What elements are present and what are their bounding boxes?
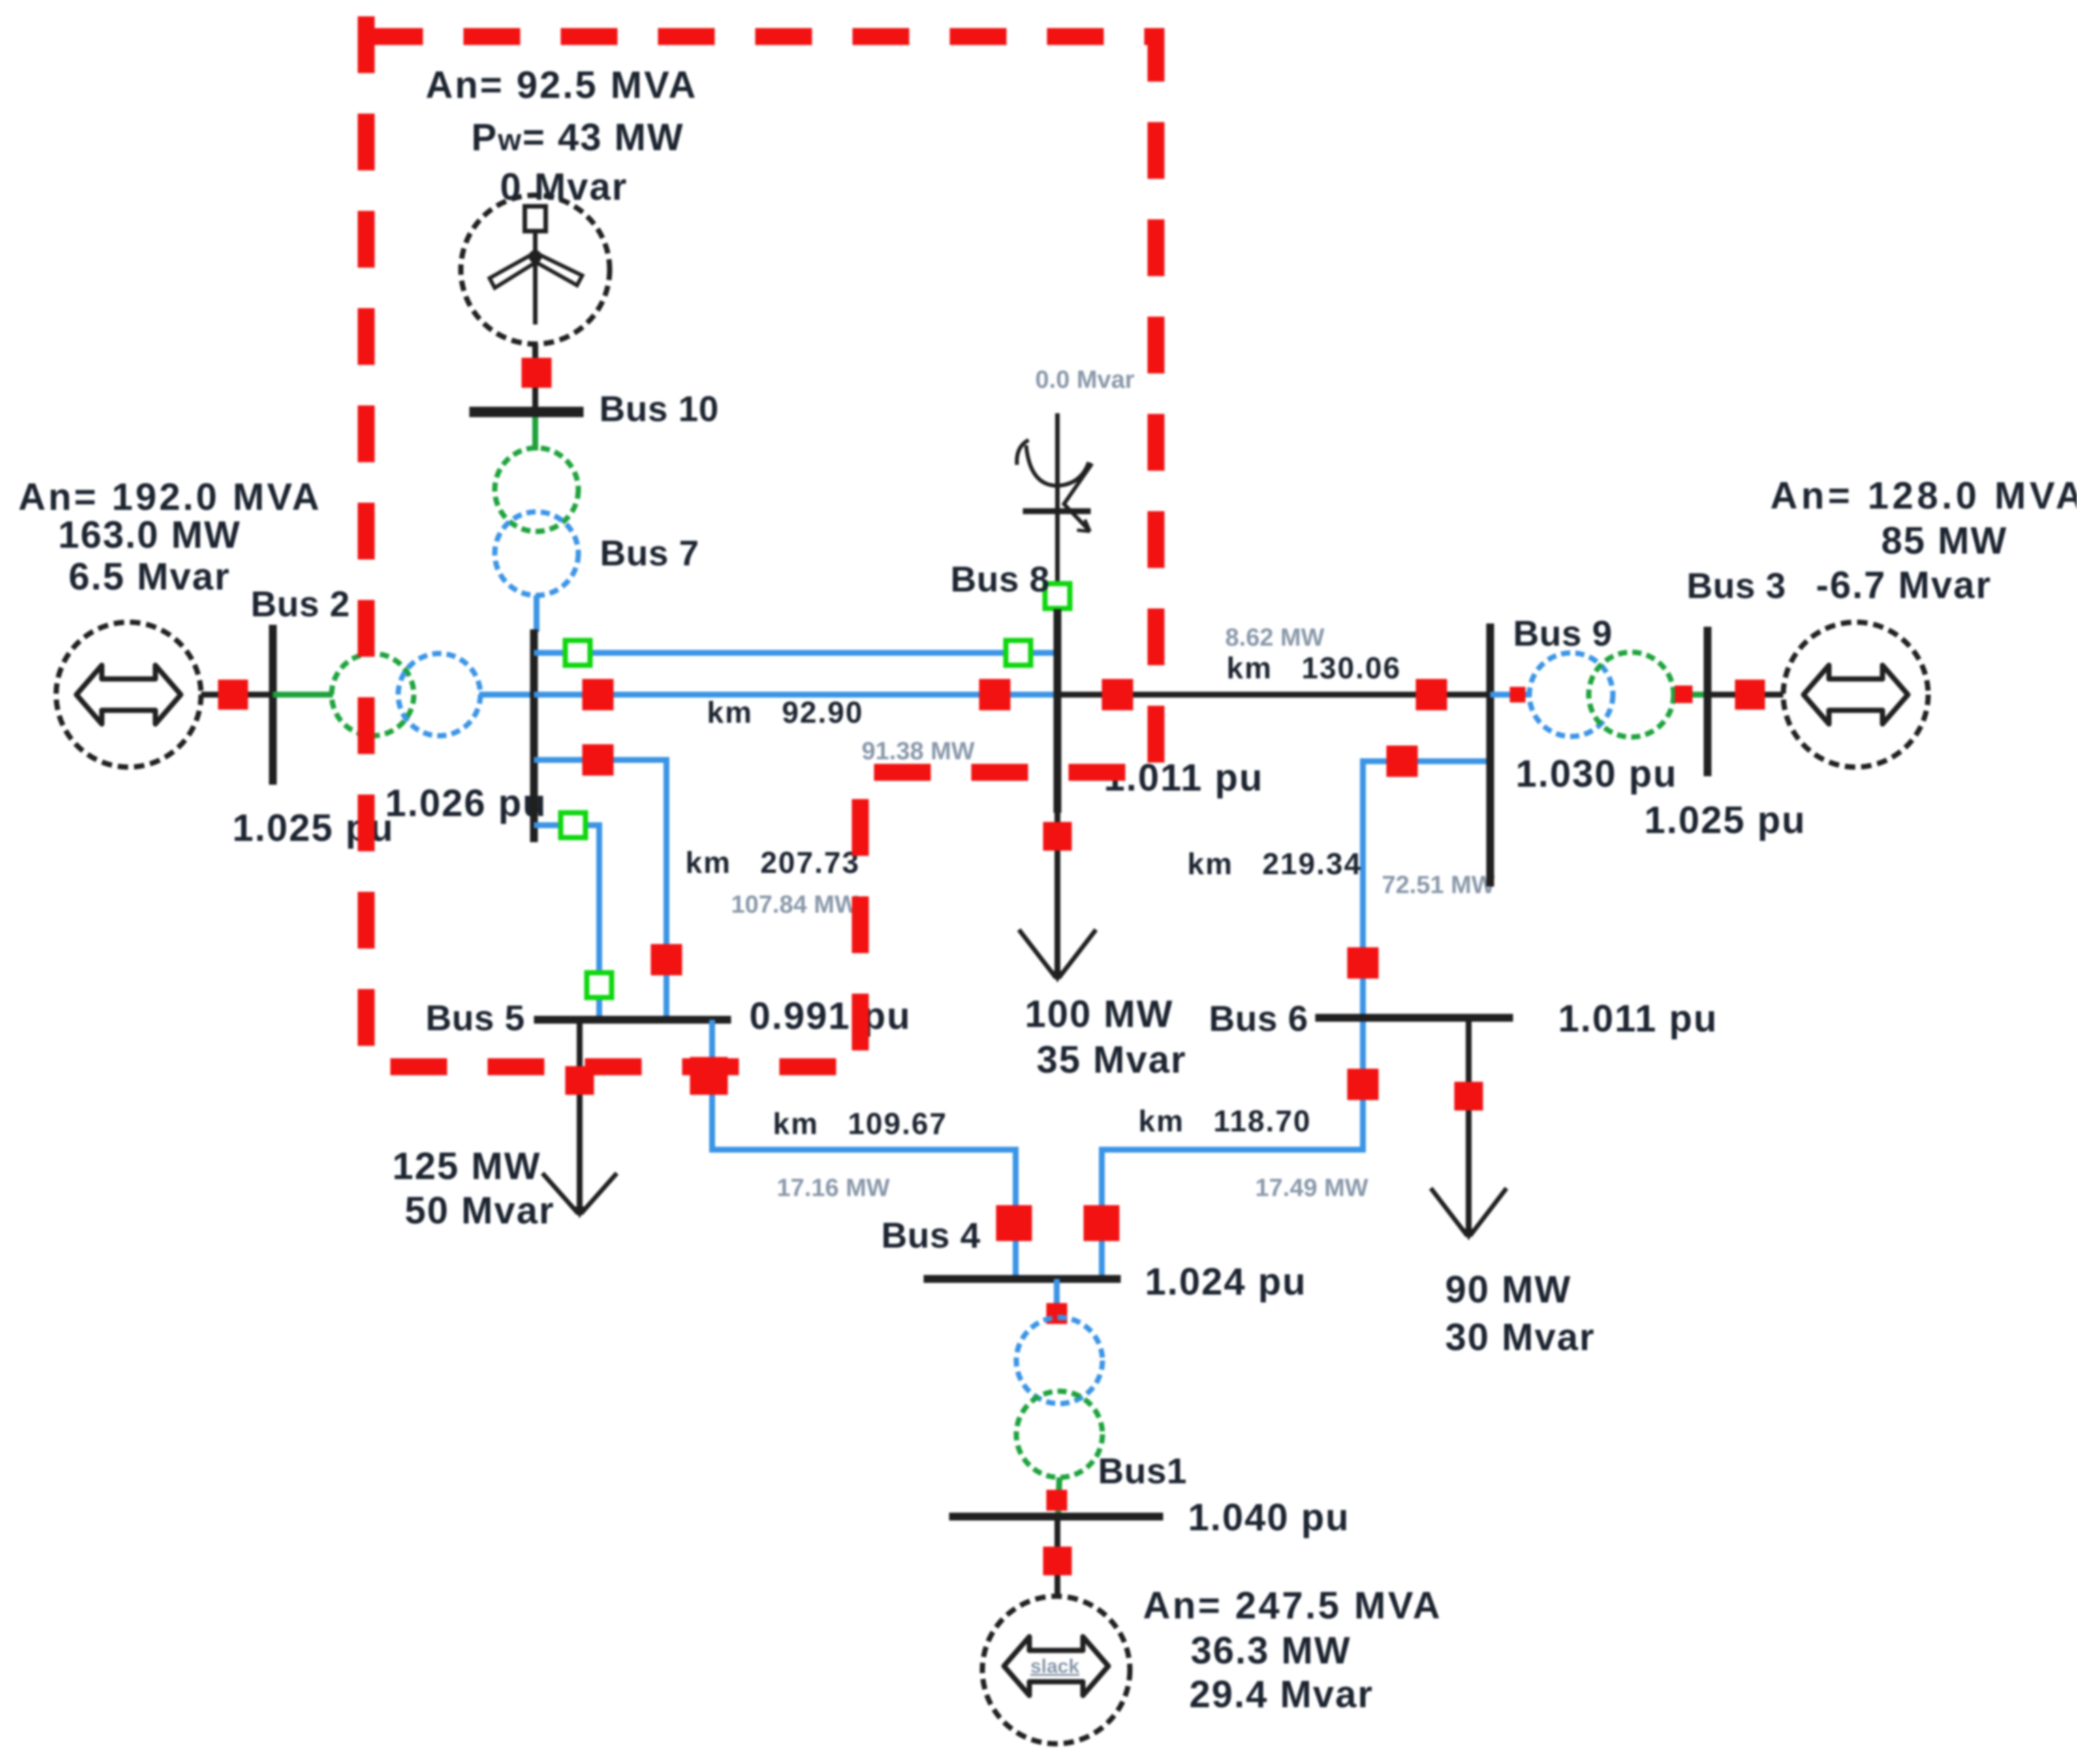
svg-text:6.5 Mvar: 6.5 Mvar [69,556,230,598]
switch line7-5 at Bus7 (open) [561,813,586,838]
svg-text:1.040 pu: 1.040 pu [1188,1496,1350,1539]
wire Bus 4 to T3 [1054,1279,1060,1320]
switch line7-8 at Bus7 (open) [565,640,590,665]
wire line 7-5 lower (open) [534,825,599,1020]
breaker line7-5 at Bus5 (closed) [651,944,682,975]
breaker line6-9 at Bus6 (closed) [1347,947,1379,979]
svg-text:Bus 6: Bus 6 [1209,998,1308,1039]
svg-text:1.030 pu: 1.030 pu [1516,753,1678,795]
breaker line7-8 at Bus8 (closed) [979,679,1010,710]
boundary: electrical island (red dashed outline) [366,16,1156,1067]
breaker load L6 (closed) [1454,1082,1483,1110]
svg-text:Bus 2: Bus 2 [251,584,350,624]
svg-text:0.991 pu: 0.991 pu [749,995,911,1037]
svg-text:-6.7 Mvar: -6.7 Mvar [1816,564,1991,606]
breaker T4 at Bus3 (closed) [1675,685,1693,703]
breaker G3-Bus3 (closed) [1735,680,1765,710]
svg-text:1.026 pu: 1.026 pu [385,782,547,825]
bus 9 bar [1486,623,1494,887]
bus 2 bar [269,625,277,785]
breaker line4-6 at Bus6 (closed) [1347,1069,1379,1100]
breaker line4-6 at Bus4 (closed) [1084,1205,1119,1241]
transformer T4 (Bus9-Bus3) [1529,652,1674,737]
svg-text:1.011 pu: 1.011 pu [1104,757,1264,799]
wire T4 to Bus 3 [1672,692,1708,698]
wire line 7-5 (km 207.73) [534,760,666,1020]
svg-text:163.0 MW: 163.0 MW [58,514,241,556]
svg-text:125 MW: 125 MW [392,1145,541,1188]
svg-text:km 118.70: km 118.70 [1138,1104,1311,1138]
breaker line6-9 at Bus9 (closed) [1386,746,1418,777]
svg-text:km 219.34: km 219.34 [1187,847,1362,881]
bus 4 bar [924,1275,1121,1283]
wire line 6-9 (km 219.34) [1363,761,1490,1018]
breaker load L8 (closed) [1043,822,1072,851]
svg-text:Bus 9: Bus 9 [1513,613,1612,654]
svg-text:Bus1: Bus1 [1098,1451,1187,1491]
breaker W1-Bus10 (closed) [522,358,552,388]
svg-text:km 130.06: km 130.06 [1226,651,1401,685]
svg-text:slack: slack [1030,1656,1079,1677]
load L8 feeder wire [1055,813,1061,975]
breaker line7-5 at Bus7 (closed) [582,744,614,776]
svg-text:100 MW: 100 MW [1025,993,1174,1035]
breaker line7-8 at Bus7 (closed) [582,679,614,710]
svg-text:km 109.67: km 109.67 [773,1107,948,1141]
svg-text:Bus 5: Bus 5 [426,998,525,1038]
breaker line8-9 at Bus9 (closed) [1416,679,1447,710]
switched shunt SH1 (Bus 8) [1017,413,1092,583]
switch shunt SH1 (open) [1045,584,1070,608]
svg-text:36.3 MW: 36.3 MW [1191,1630,1351,1672]
svg-text:17.16 MW: 17.16 MW [777,1174,890,1202]
wire Bus 10 to T1 [533,417,539,450]
svg-text:29.4 Mvar: 29.4 Mvar [1189,1673,1373,1716]
breaker T4 at Bus9 (closed) [1510,687,1525,702]
breaker G2-Bus2 (closed) [218,680,248,710]
wire Bus 1 to slack generator [1055,1517,1061,1598]
wire T2 to Bus 7 [479,692,534,698]
breaker G1-Bus1 (closed) [1043,1547,1072,1575]
svg-text:85 MW: 85 MW [1881,520,2008,562]
svg-text:An= 92.5 MVA: An= 92.5 MVA [426,64,698,106]
load L5 arrow [542,1173,617,1218]
wire T3 to Bus 1 [1058,1477,1059,1517]
transformer T2 (Bus2-Bus7) [332,654,480,736]
switch line7-8 at Bus8 (open) [1006,640,1031,665]
svg-text:Bus 10: Bus 10 [599,388,719,429]
svg-text:km 92.90: km 92.90 [707,695,864,729]
bus 6 bar [1315,1014,1513,1022]
svg-text:107.84 MW: 107.84 MW [731,891,858,919]
svg-text:91.38 MW: 91.38 MW [862,738,975,765]
wire T1 to Bus 7 [534,595,540,632]
generator G1 (slack machine) [982,1596,1130,1744]
generator G2 (Bus 2 machine) [56,622,201,767]
load L5 feeder wire [577,1020,583,1209]
svg-text:90 MW: 90 MW [1445,1268,1572,1311]
svg-text:50 Mvar: 50 Mvar [405,1189,555,1232]
wire W1 to breaker [533,344,539,412]
load L8 arrow [1019,930,1096,983]
wind generator W1 [461,195,610,344]
svg-text:Bus 8: Bus 8 [950,559,1050,599]
bus 8 bar [1054,609,1061,813]
switch line7-5 at Bus5 (open) [587,973,612,998]
wire Bus 2 to T2 [273,692,333,698]
svg-text:Bus 7: Bus 7 [600,533,699,573]
transformer T3 (Bus4-Bus1) [1016,1317,1102,1477]
svg-text:Pw= 43 MW: Pw= 43 MW [471,116,684,159]
svg-text:35 Mvar: 35 Mvar [1037,1039,1187,1081]
svg-text:1.011 pu: 1.011 pu [1558,998,1718,1040]
svg-text:1.025 pu: 1.025 pu [1644,799,1806,842]
generator G3 (Bus 3 machine) [1783,622,1928,767]
breaker load L5 (closed) [565,1066,594,1095]
svg-text:0 Mvar: 0 Mvar [500,166,628,208]
load L6 arrow [1431,1188,1507,1240]
svg-text:30 Mvar: 30 Mvar [1445,1316,1595,1359]
wire line 4-6 (km 118.70) [1102,1018,1363,1279]
svg-text:Bus 3: Bus 3 [1687,565,1786,606]
breaker T3 at Bus1 (closed) [1046,1490,1067,1511]
bus 5 bar [534,1016,731,1024]
svg-text:0.0 Mvar: 0.0 Mvar [1035,366,1134,394]
transformer T1 (Bus10-Bus7) [495,448,578,595]
breaker line8-9 at Bus8 (closed) [1102,679,1133,710]
svg-text:8.62 MW: 8.62 MW [1225,624,1324,652]
load L6 feeder wire [1466,1018,1472,1233]
wire line 5-4 (km 109.67) [712,1020,1016,1279]
breaker line5-4 at Bus5 (closed) [690,1057,728,1095]
svg-text:1.024 pu: 1.024 pu [1145,1261,1307,1303]
wire Bus 3 to G3 [1708,692,1785,698]
wire line 8-9 (km 130.06) [1057,692,1490,698]
svg-text:17.49 MW: 17.49 MW [1255,1174,1368,1202]
svg-text:An= 128.0 MVA: An= 128.0 MVA [1770,475,2077,517]
breaker T3 at Bus4 (closed) [1046,1303,1067,1324]
svg-text:An= 192.0 MVA: An= 192.0 MVA [18,476,322,518]
wire Bus 9 to T4 [1490,692,1531,698]
breaker line5-4 at Bus4 (closed) [996,1205,1032,1241]
bus 3 bar [1704,627,1711,776]
wire line 7-8 (km 92.90) [534,692,1057,698]
bus 1 bar [949,1513,1163,1520]
bus 7 bar [530,629,538,842]
bus 10 bar [469,407,584,417]
svg-text:An= 247.5 MVA: An= 247.5 MVA [1143,1584,1443,1627]
wire line 7-8 upper (open) [534,650,1057,656]
svg-text:km 207.73: km 207.73 [685,845,860,879]
svg-text:Bus 4: Bus 4 [881,1215,980,1255]
svg-text:72.51 MW: 72.51 MW [1382,872,1495,899]
wire G2 to Bus 2 [201,692,273,698]
